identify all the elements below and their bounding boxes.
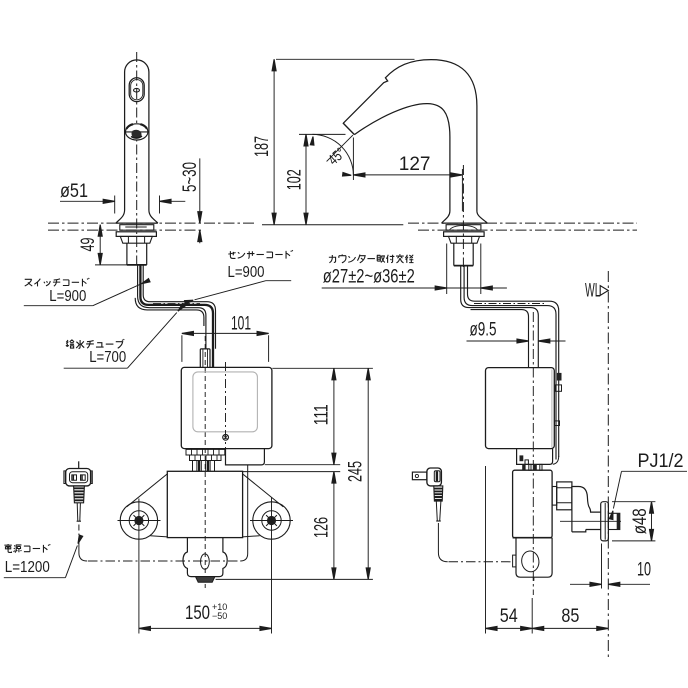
- svg-text:10: 10: [637, 560, 651, 581]
- faucet side centerline: [462, 165, 464, 267]
- svg-text:ø9.5: ø9.5: [470, 320, 497, 341]
- power plug front: [78, 461, 80, 468]
- mounting flange front: [120, 225, 154, 231]
- base flare side: [442, 211, 488, 223]
- sensor cord bold front: [140, 265, 213, 368]
- gooseneck spout outer edge: [343, 60, 477, 211]
- svg-text:WL: WL: [585, 281, 601, 302]
- label switch cord: [25, 278, 89, 286]
- svg-text:127: 127: [399, 154, 431, 175]
- svg-text:85: 85: [561, 606, 579, 627]
- tap nut: [557, 482, 572, 510]
- washer side: [444, 232, 485, 237]
- supply tube centerline side: [474, 303, 545, 305]
- dimension 45deg arc: [312, 134, 353, 175]
- gooseneck inner edge: [354, 104, 450, 211]
- label counter hole: [329, 254, 414, 263]
- svg-text:49: 49: [78, 238, 99, 252]
- svg-text:L=900: L=900: [49, 288, 86, 305]
- faucet front body: [125, 60, 149, 210]
- right mounting ear: [243, 474, 284, 507]
- connector fins: [191, 460, 218, 462]
- svg-text:102: 102: [285, 169, 306, 190]
- svg-text:ø48: ø48: [630, 508, 651, 534]
- label power cord: [4, 544, 50, 553]
- svg-text:150: 150: [185, 603, 210, 624]
- cords hook into box side: [553, 456, 559, 464]
- svg-text:245: 245: [346, 461, 367, 482]
- dimension 5~30: [199, 158, 201, 243]
- lock nut side: [449, 236, 480, 243]
- dimension 126: [333, 472, 335, 580]
- dimension 10: [601, 544, 603, 589]
- svg-text:−50: −50: [212, 611, 227, 621]
- outlet front: [183, 538, 227, 577]
- box lower right section: [226, 449, 265, 465]
- counter bottom chain line: [48, 229, 203, 231]
- switch/sensor cords front: [138, 265, 206, 349]
- side tap stub: [552, 487, 557, 506]
- dimension 111: [333, 368, 335, 464]
- svg-text:187: 187: [252, 136, 273, 157]
- supply tube leader: [64, 313, 177, 369]
- power cord leader: [4, 546, 78, 578]
- box lower left connectors: [186, 449, 225, 455]
- aerator blob: [131, 130, 141, 139]
- dimension 245: [367, 368, 369, 579]
- dimension 102: [305, 134, 307, 224]
- dimension 54 and 85: [485, 466, 487, 634]
- dimension phi9.5: [467, 340, 566, 342]
- sensor window: [129, 78, 144, 102]
- left mounting ear: [127, 474, 168, 507]
- svg-text:PJ1/2: PJ1/2: [638, 451, 684, 472]
- outlet ellipse front: [201, 554, 210, 569]
- dimension 127: [353, 174, 462, 176]
- controller box front: [181, 367, 272, 448]
- mounting flange side: [446, 225, 481, 231]
- power cord chain front: [78, 525, 80, 541]
- svg-text:126: 126: [312, 517, 333, 538]
- svg-text:101: 101: [231, 314, 251, 335]
- cord clips side: [557, 373, 562, 381]
- switch cord leader: [24, 284, 140, 305]
- power cord side: [438, 523, 447, 562]
- dimension 150: [139, 627, 272, 629]
- threaded shank side: [454, 243, 473, 265]
- svg-text:54: 54: [500, 606, 518, 627]
- panel screw: [223, 434, 229, 440]
- controller panel front: [193, 372, 258, 432]
- counter top extension line: [262, 224, 403, 226]
- dimension phi48: [612, 502, 655, 541]
- outlet side: [516, 538, 552, 578]
- svg-text:ø51: ø51: [60, 181, 88, 202]
- valve body front: [167, 471, 242, 537]
- base flare front: [116, 210, 158, 223]
- label supply tube: [66, 339, 124, 348]
- power plug side: [412, 472, 427, 480]
- cords side s-bend: [461, 266, 539, 368]
- plug cord: [77, 503, 80, 521]
- spout cut face: [343, 123, 355, 135]
- sensor cord leader: [195, 281, 292, 300]
- faucet front centerline: [136, 52, 138, 268]
- extension lines right of box: [272, 367, 373, 369]
- dimension phi51: [115, 196, 160, 214]
- tap bracket: [572, 487, 601, 532]
- counter top chain line: [48, 222, 256, 224]
- svg-text:L=700: L=700: [89, 349, 126, 366]
- supply tube centerline front: [153, 303, 200, 305]
- plug strain relief: [74, 486, 85, 503]
- water inlet boss: [200, 349, 210, 368]
- svg-text:L=1200: L=1200: [5, 559, 50, 576]
- spout outlet line: [125, 131, 149, 133]
- 45deg reference line: [327, 135, 353, 161]
- wall flange: [601, 502, 609, 541]
- WL marker triangle: [600, 286, 608, 296]
- dimension 187: [273, 59, 275, 224]
- svg-text:5~30: 5~30: [180, 162, 201, 192]
- dimension 49: [99, 225, 101, 265]
- PJ1/2 leader: [613, 471, 687, 508]
- svg-text:ø27±2~ø36±2: ø27±2~ø36±2: [323, 267, 415, 288]
- box skirt side: [517, 449, 553, 465]
- washer front: [116, 232, 156, 237]
- PJ pipe stub: [608, 513, 619, 529]
- controller box side: [486, 368, 555, 449]
- dimension 101: [182, 335, 269, 362]
- side fittings: [520, 455, 524, 461]
- threaded shank front: [127, 243, 147, 265]
- label sensor cord: [228, 250, 292, 258]
- svg-text:111: 111: [312, 404, 333, 425]
- spout outlet ellipse: [126, 124, 148, 140]
- sensor eye: [134, 88, 140, 92]
- svg-text:L=900: L=900: [228, 264, 265, 281]
- lock nut front: [120, 236, 152, 243]
- counter hole dimension: [447, 244, 481, 295]
- box centerline: [225, 362, 227, 465]
- outlet tip hatch: [196, 577, 215, 583]
- tap centerline: [560, 520, 621, 522]
- valve body side: [513, 470, 553, 538]
- WL wall line: [607, 271, 609, 659]
